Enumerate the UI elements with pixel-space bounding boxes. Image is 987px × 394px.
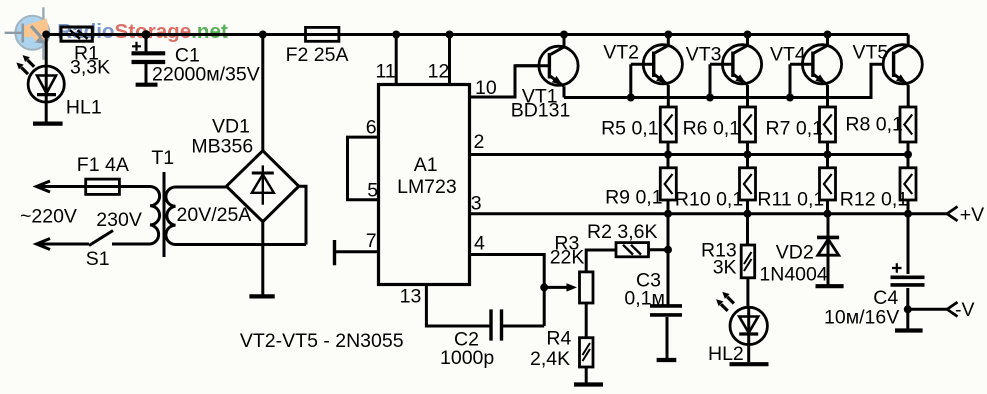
svg-text:-V: -V <box>955 299 975 321</box>
svg-text:VT4: VT4 <box>770 43 806 65</box>
svg-text:R11 0,1: R11 0,1 <box>757 189 824 211</box>
svg-text:MB356: MB356 <box>191 136 253 158</box>
svg-text:VT2-VT5 - 2N3055: VT2-VT5 - 2N3055 <box>240 330 404 352</box>
svg-text:3: 3 <box>471 193 482 215</box>
svg-text:20V/25A: 20V/25A <box>177 204 252 226</box>
svg-text:4: 4 <box>474 233 485 255</box>
svg-text:22K: 22K <box>550 247 585 269</box>
svg-text:2: 2 <box>474 131 485 153</box>
svg-text:R12 0,1: R12 0,1 <box>840 189 908 211</box>
svg-text:F1 4A: F1 4A <box>77 154 129 176</box>
svg-text:HL2: HL2 <box>708 343 744 365</box>
svg-text:+V: +V <box>960 204 984 226</box>
svg-text:0,1м: 0,1м <box>624 288 665 310</box>
svg-text:VT5: VT5 <box>853 41 889 63</box>
svg-text:12: 12 <box>428 60 450 82</box>
svg-text:BD131: BD131 <box>511 100 571 122</box>
svg-text:F2 25A: F2 25A <box>286 44 349 66</box>
svg-text:11: 11 <box>376 60 396 82</box>
svg-text:13: 13 <box>400 285 422 307</box>
svg-text:R4: R4 <box>546 327 571 349</box>
svg-text:R9 0,1: R9 0,1 <box>605 187 662 209</box>
svg-text:VD1: VD1 <box>212 116 250 138</box>
svg-text:3,3K: 3,3K <box>70 57 110 79</box>
svg-text:7: 7 <box>366 230 377 252</box>
svg-text:~220V: ~220V <box>20 206 77 228</box>
svg-text:A1: A1 <box>414 154 438 176</box>
svg-text:R10 0,1: R10 0,1 <box>675 189 743 211</box>
svg-text:R8 0,1: R8 0,1 <box>845 113 902 135</box>
svg-text:5: 5 <box>367 179 378 201</box>
svg-text:10м/16V: 10м/16V <box>824 307 899 329</box>
svg-text:VT3: VT3 <box>686 43 722 65</box>
svg-text:6: 6 <box>366 117 377 139</box>
svg-text:VD2: VD2 <box>776 242 814 264</box>
svg-text:R5 0,1: R5 0,1 <box>601 117 658 139</box>
svg-text:LM723: LM723 <box>397 176 457 198</box>
svg-text:1000p: 1000p <box>440 347 494 369</box>
svg-text:10: 10 <box>475 77 497 99</box>
svg-text:230V: 230V <box>96 209 142 231</box>
svg-text:2,4K: 2,4K <box>530 348 570 370</box>
svg-text:R6 0,1: R6 0,1 <box>683 117 740 139</box>
svg-text:3K: 3K <box>713 256 737 278</box>
svg-text:22000м/35V: 22000м/35V <box>152 64 260 86</box>
svg-text:S1: S1 <box>86 248 110 270</box>
svg-text:R2 3,6K: R2 3,6K <box>587 221 657 243</box>
svg-text:T1: T1 <box>151 147 174 169</box>
svg-text:C4: C4 <box>873 287 898 309</box>
svg-text:VT2: VT2 <box>603 41 639 63</box>
svg-text:1N4004: 1N4004 <box>759 263 827 285</box>
svg-text:HL1: HL1 <box>66 97 102 119</box>
svg-text:R7 0,1: R7 0,1 <box>766 117 823 139</box>
